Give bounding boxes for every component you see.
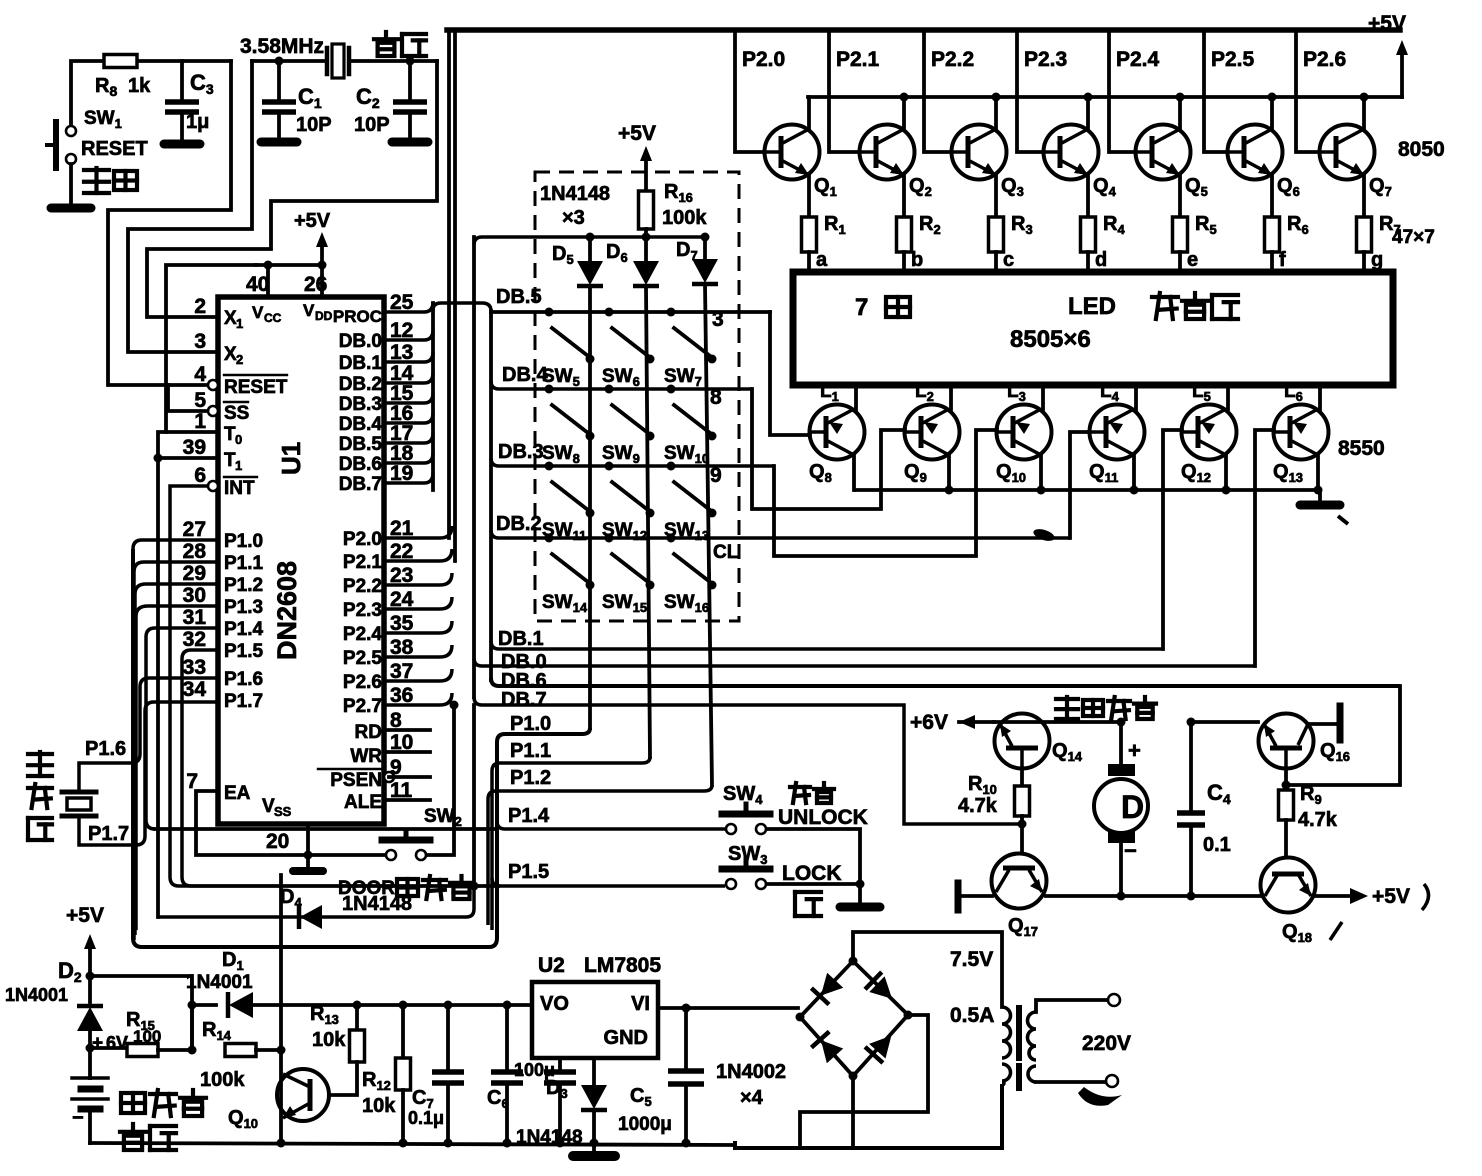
wire R7 to display	[1362, 252, 1366, 272]
svg-text:P1.2: P1.2	[224, 575, 263, 596]
svg-text:INT: INT	[224, 478, 255, 499]
svg-text:6V: 6V	[106, 1033, 128, 1053]
svg-text:1000μ: 1000μ	[618, 1114, 672, 1135]
svg-text:DB.2: DB.2	[496, 513, 542, 535]
svg-text:P1.5: P1.5	[508, 861, 549, 883]
wire Q16 emitter node	[1284, 768, 1288, 785]
transformer core	[1016, 1008, 1022, 1058]
transistor Q19 charge	[277, 1069, 329, 1121]
wire SW4 to ground line	[767, 829, 860, 884]
wire P1 bus return bottom	[133, 549, 497, 947]
svg-text:100k: 100k	[200, 1069, 245, 1091]
wire D4 line	[158, 888, 474, 917]
svg-text:LM7805: LM7805	[584, 954, 661, 977]
wire Q6 collector to R6	[1270, 175, 1274, 217]
svg-text:×4: ×4	[740, 1087, 764, 1109]
svg-text:PSEN: PSEN	[330, 770, 382, 791]
svg-text:f: f	[1279, 249, 1286, 271]
switch SW1	[66, 126, 76, 136]
resistor R13	[355, 1005, 359, 1030]
wire R1 to display	[807, 252, 811, 272]
battery 6V	[88, 1048, 92, 1078]
svg-text:P1.4: P1.4	[224, 619, 264, 640]
motor D	[1117, 718, 1126, 727]
wire Q17 left	[961, 894, 992, 898]
svg-text:P2.6: P2.6	[1303, 48, 1346, 71]
svg-text:1N4148: 1N4148	[516, 1127, 583, 1148]
wire P2.4 drop	[1109, 30, 1135, 152]
wire Q1 emitter to rail	[807, 97, 811, 129]
wire pin 19 to DB bus	[384, 473, 433, 483]
svg-text:1: 1	[235, 458, 242, 473]
svg-text:P2.1: P2.1	[343, 552, 383, 573]
wire DB.7 line	[474, 697, 1021, 824]
ink blob CL elbow	[1032, 527, 1056, 543]
diode D5	[588, 237, 592, 262]
svg-text:0: 0	[235, 432, 242, 447]
svg-text:8505×6: 8505×6	[1010, 326, 1091, 353]
svg-text:3: 3	[712, 308, 724, 331]
svg-text:P2.3: P2.3	[1024, 48, 1067, 71]
svg-text:40: 40	[246, 273, 269, 296]
ground C3	[164, 140, 200, 149]
svg-text:P1.6: P1.6	[85, 738, 126, 760]
svg-text:+5V: +5V	[66, 904, 104, 927]
diode D7	[703, 237, 707, 260]
svg-text:P1.0: P1.0	[510, 713, 551, 735]
wire P2.5 to bus	[384, 645, 452, 657]
svg-text:4.7k: 4.7k	[958, 795, 998, 817]
ground C2	[392, 138, 428, 147]
wire D1 to VO line	[254, 1003, 532, 1007]
svg-text:e: e	[1187, 249, 1198, 271]
label jiesuo (unlock chinese)	[790, 783, 834, 803]
bridge rectifier 1N4002x4	[800, 961, 908, 1076]
wire diode top rail	[644, 229, 648, 237]
wire Q11 collector to rail	[1132, 455, 1136, 490]
wire +6V rail	[959, 720, 994, 724]
svg-text:PROC: PROC	[333, 307, 382, 326]
svg-text:U2: U2	[538, 954, 565, 977]
wire bottom rail	[90, 1143, 735, 1145]
wire Q12 collector to rail	[1224, 455, 1228, 490]
wire D2 to battery node	[88, 1032, 92, 1048]
wire R15 to junction	[158, 1048, 192, 1052]
wire keypad column 2	[646, 287, 650, 757]
svg-text:4: 4	[194, 363, 206, 386]
pin 9 stub	[384, 772, 394, 782]
buzzer piezo	[62, 790, 96, 795]
wire P1.3 pin to bundle	[136, 606, 218, 930]
svg-text:LOCK: LOCK	[782, 862, 842, 885]
wire P1.2 line	[488, 785, 712, 925]
svg-text:DN2608: DN2608	[272, 561, 302, 660]
svg-text:P1.7: P1.7	[88, 823, 129, 845]
resistor R5	[1173, 217, 1188, 252]
svg-text:7: 7	[855, 294, 868, 321]
wire SW1 to ground	[69, 164, 73, 205]
terminal bar Q16 right	[1308, 722, 1336, 726]
svg-text:39: 39	[183, 436, 206, 459]
diode D6	[644, 237, 648, 262]
wire P2.1 drop	[829, 30, 859, 152]
wire pin 17 to DB bus	[384, 433, 433, 443]
svg-text:VI: VI	[631, 993, 650, 1015]
dashed keypad box	[535, 172, 739, 621]
svg-text:DB.6: DB.6	[339, 454, 382, 475]
wire DB.0 line	[474, 658, 1255, 666]
wire L1 stub	[854, 385, 858, 409]
capacitor C6	[503, 1001, 512, 1010]
ground VSS	[304, 851, 313, 860]
svg-text:DD: DD	[315, 309, 333, 323]
bus P2 vertical pair	[447, 30, 451, 538]
wire P2.1 to bus	[384, 549, 452, 561]
wire P2.4 to bus	[384, 621, 452, 633]
pin 6 stub	[208, 481, 218, 491]
wire P1.1 pin to bundle	[134, 562, 218, 940]
capacitor C4	[1187, 718, 1196, 727]
transistor Q3	[952, 125, 1007, 180]
svg-text:b: b	[911, 249, 923, 271]
svg-text:DB.7: DB.7	[339, 474, 382, 495]
svg-text:WR: WR	[350, 746, 382, 767]
svg-text:1k: 1k	[128, 75, 151, 97]
svg-text:100k: 100k	[662, 207, 707, 229]
svg-text:10P: 10P	[354, 114, 390, 136]
bus DB vertical A	[431, 303, 435, 490]
wire P1.0 pin to bundle	[133, 540, 218, 549]
wire R13 top	[353, 1001, 362, 1010]
label yadianpian (piezo chinese vertical)	[28, 752, 52, 776]
svg-text:P2.5: P2.5	[343, 648, 383, 669]
wire P2.7 to bus	[384, 693, 452, 705]
wire Q6 emitter to rail	[1270, 97, 1274, 129]
wire P2.6 to bus	[384, 669, 452, 681]
capacitor C7	[444, 1001, 453, 1010]
svg-text:P1.4: P1.4	[508, 805, 550, 827]
svg-text:DB.3: DB.3	[339, 394, 382, 415]
transistor Q17	[992, 854, 1047, 909]
svg-text:×3: ×3	[562, 207, 585, 229]
wire rail end to 7.5V box	[682, 1139, 691, 1148]
svg-text:EA: EA	[224, 783, 251, 804]
capacitor C1	[275, 57, 284, 66]
capacitor C3	[180, 61, 184, 99]
wire crystal left node	[252, 59, 327, 63]
svg-text:+5V: +5V	[294, 210, 331, 232]
wire Q8 collector to rail	[852, 455, 856, 490]
switch SW16	[667, 534, 676, 543]
svg-text:P1.1: P1.1	[510, 740, 551, 762]
wire L4 stub	[1134, 385, 1138, 409]
wire P2.3 drop	[1017, 30, 1043, 152]
svg-text:31: 31	[183, 606, 207, 629]
wire pin 14 to DB bus	[384, 373, 433, 383]
svg-text:1μ: 1μ	[186, 111, 209, 133]
svg-text:10k: 10k	[312, 1029, 346, 1051]
svg-text:P1.5: P1.5	[224, 641, 264, 662]
ic U1 DN2608 body	[218, 297, 384, 824]
pin 5 stub	[208, 406, 218, 416]
pin 4 stub	[208, 380, 218, 390]
wire RESET net staircase	[108, 61, 231, 385]
wire R3 to display	[994, 252, 998, 272]
svg-text:P2.0: P2.0	[742, 48, 785, 71]
switch SW6	[605, 308, 614, 317]
bus DB vertical C	[489, 311, 493, 680]
svg-text:30: 30	[183, 584, 206, 607]
wire Q1 collector to R1	[807, 175, 811, 217]
wire R10 bottom node	[1020, 816, 1024, 853]
svg-text:7: 7	[186, 770, 198, 793]
svg-text:P2.1: P2.1	[836, 48, 880, 71]
svg-text:20: 20	[266, 830, 289, 853]
wire R2 to display	[902, 252, 906, 272]
wire Q13 collector to rail	[1316, 455, 1320, 490]
svg-text:D: D	[1121, 789, 1144, 825]
wire Q4 collector to R4	[1086, 175, 1090, 217]
label jingti (crystal chinese)	[374, 32, 426, 56]
transistor Q18	[1261, 858, 1316, 913]
svg-text:5: 5	[194, 389, 206, 412]
svg-text:P1.6: P1.6	[224, 669, 263, 690]
svg-text:DB.5: DB.5	[339, 434, 383, 455]
svg-text:DB.1: DB.1	[498, 628, 544, 650]
wire Q10 collector to rail	[1039, 455, 1043, 490]
label fuwei (reset chinese)	[84, 168, 137, 193]
wire bridge right AC2 loop	[800, 1015, 928, 1148]
svg-text:3: 3	[194, 330, 206, 353]
svg-text:29: 29	[183, 562, 206, 585]
wire keypad column 1	[588, 287, 592, 728]
resistor R2	[897, 217, 912, 252]
svg-text:−: −	[72, 1107, 84, 1129]
wire R6 to display	[1270, 252, 1274, 272]
pin VDD 26	[320, 264, 324, 297]
wire P2.2 to bus	[384, 573, 452, 585]
wire EA to ground	[196, 791, 308, 855]
resistor R16	[639, 191, 654, 229]
wire Q4 emitter to rail	[1086, 97, 1090, 129]
wire P2.7 vertical to D4 node	[472, 705, 476, 886]
wire P1.6 to buzzer	[79, 678, 218, 790]
transistor Q8	[810, 405, 865, 460]
switch SW3	[726, 879, 736, 889]
svg-text:ALE: ALE	[344, 792, 382, 813]
resistor R3	[989, 217, 1004, 252]
svg-text:7.5V: 7.5V	[950, 948, 993, 971]
wire +5V to R15 top right	[90, 976, 192, 1048]
svg-text:c: c	[1003, 249, 1014, 271]
power +5V arrow mcu	[320, 244, 324, 265]
svg-text:32: 32	[183, 628, 206, 651]
svg-text:P2.4: P2.4	[1116, 48, 1160, 71]
svg-text:DB.5: DB.5	[496, 286, 542, 308]
wire keypad column 3	[705, 285, 712, 785]
wire P1.7 to buzzer	[79, 702, 218, 845]
switch SW15	[605, 534, 614, 543]
wire P2.5 drop	[1204, 30, 1227, 152]
svg-text:P1.1: P1.1	[224, 553, 264, 574]
svg-text:0.1: 0.1	[1203, 834, 1231, 856]
wire Q14 emitter top	[994, 720, 1121, 724]
svg-text:26: 26	[304, 273, 327, 296]
resistor R1	[802, 217, 817, 252]
wire vcc vdd +5V	[256, 263, 322, 267]
wire motor box right edge	[1289, 686, 1400, 785]
wire SW3 to ground	[767, 882, 860, 886]
ground SW3 SW4	[840, 903, 880, 912]
bridge diode bottom-right	[865, 1028, 900, 1063]
svg-text:SS: SS	[224, 403, 249, 424]
resistor R7	[1357, 217, 1372, 252]
wire VSS to SW2	[308, 853, 385, 857]
svg-text:V: V	[252, 303, 264, 322]
transistor Q4	[1044, 125, 1099, 180]
wire P1.2 pin to bundle	[135, 584, 218, 935]
bus top rail P2	[447, 27, 1400, 33]
wire Q9 collector to rail	[947, 455, 951, 490]
svg-text:P2.2: P2.2	[931, 48, 974, 71]
transistor Q6	[1228, 125, 1283, 180]
svg-text:DB.3: DB.3	[498, 441, 544, 463]
capacitor C2	[406, 57, 415, 66]
diode D3	[592, 1058, 596, 1086]
svg-text:P2.2: P2.2	[343, 576, 382, 597]
svg-text:+5V: +5V	[618, 122, 656, 145]
capacitor C5	[684, 1008, 688, 1068]
wire P1.5 line	[492, 878, 725, 886]
wire Q3 emitter to rail	[994, 97, 998, 129]
svg-text:8050: 8050	[1398, 138, 1445, 161]
wire P2.0 to bus	[384, 526, 452, 538]
wire Q2 collector to R2	[902, 175, 906, 217]
wire SS branch	[168, 385, 208, 411]
wire INT vertical	[170, 486, 500, 886]
wire Q14 to R10	[1020, 768, 1024, 786]
wire T0 T1 junction	[158, 432, 218, 917]
ground collector rail	[1318, 490, 1322, 500]
wire R9 to Q18	[1284, 820, 1288, 857]
svg-text:P2.3: P2.3	[343, 600, 382, 621]
wire P2.6 drop	[1296, 30, 1319, 152]
svg-text:DB.1: DB.1	[339, 353, 383, 374]
label niege dianchizu (battery chinese)	[121, 1090, 206, 1116]
svg-text:P1.3: P1.3	[224, 597, 263, 618]
svg-text:1N4148: 1N4148	[540, 183, 610, 205]
crystal Y1	[325, 48, 330, 74]
svg-text:9: 9	[710, 464, 722, 487]
wire P1.1 line	[492, 757, 650, 930]
label zhiliu dianji (dc motor chinese)	[1056, 697, 1156, 719]
bridge diode bottom-left	[811, 1032, 844, 1064]
wire P1.4 pin down	[146, 628, 218, 829]
svg-text:P2.7: P2.7	[343, 696, 382, 717]
wire Q18 to +5V arrow	[1315, 894, 1352, 898]
svg-text:1N4001: 1N4001	[5, 985, 68, 1005]
wire DB.0 to Q13 base	[1255, 430, 1274, 666]
wire R4 to display	[1086, 252, 1090, 272]
svg-text:1N4002: 1N4002	[716, 1061, 786, 1083]
wire transformer bottom line	[735, 1086, 1002, 1148]
resistor R4	[1081, 217, 1096, 252]
wire row DB.5	[491, 310, 770, 314]
wire pin 12 to DB bus	[384, 330, 433, 340]
resistor R6	[1265, 217, 1280, 252]
transistor Q7	[1320, 125, 1375, 180]
transformer T1 secondary coil	[1002, 1007, 1011, 1058]
svg-text:1N4001: 1N4001	[186, 972, 253, 993]
svg-text:+5V: +5V	[1372, 885, 1410, 908]
bus DB vertical B	[472, 237, 476, 697]
svg-text:+: +	[92, 1033, 103, 1054]
ic U2 LM7805 box	[532, 982, 658, 1058]
wire motor bottom rail	[1046, 894, 1261, 898]
wire Q16 base	[1191, 720, 1258, 724]
wire D2 node top	[86, 972, 95, 981]
wire Q7 emitter to rail	[1362, 97, 1366, 129]
wire pin 16 to DB bus	[384, 413, 433, 423]
transistor Q2	[860, 125, 915, 180]
wire L6 stub	[1318, 385, 1322, 409]
svg-text:100: 100	[133, 1027, 161, 1046]
wire crystal right node	[352, 59, 437, 63]
bridge diode top-left	[811, 972, 844, 1004]
wire VI to bridge	[658, 1006, 798, 1010]
wire R13 to Q19 base	[331, 1062, 357, 1095]
wire L3 stub	[1041, 385, 1045, 409]
svg-text:DB.2: DB.2	[339, 374, 382, 395]
wire pin 25 to DB bus	[384, 302, 433, 312]
transistor Q5	[1136, 125, 1191, 180]
wire reset top	[71, 61, 231, 131]
svg-text:3.58MHz: 3.58MHz	[240, 35, 324, 58]
transistor Q12	[1182, 405, 1237, 460]
svg-text:+5V: +5V	[1368, 12, 1406, 35]
svg-text:2: 2	[236, 352, 243, 367]
wire X2 staircase from crystal left	[128, 61, 252, 352]
wire row DB.2	[491, 530, 1070, 538]
switch SW5	[545, 308, 554, 317]
switch SW7	[667, 308, 676, 317]
wire primary top terminal	[1036, 1000, 1106, 1012]
svg-text:P1.2: P1.2	[510, 767, 551, 789]
wire bridge bottom to rail	[851, 1076, 855, 1148]
svg-text:DB.4: DB.4	[339, 414, 383, 435]
svg-text:RESET: RESET	[224, 377, 288, 398]
svg-text:10k: 10k	[362, 1095, 396, 1117]
svg-text:RD: RD	[355, 722, 382, 743]
wire DB.1 to Q12 base	[1163, 430, 1182, 649]
wire VSS ground vertical	[279, 875, 283, 1143]
transistor Q9	[905, 405, 960, 460]
bridge diode top-right	[865, 972, 900, 1007]
svg-text:−: −	[1124, 838, 1137, 863]
switch SW10	[667, 385, 676, 394]
svg-text:P2.4: P2.4	[343, 624, 383, 645]
wire emitter rail Q1-Q7	[808, 95, 1402, 99]
svg-text:UNLOCK: UNLOCK	[778, 806, 868, 829]
svg-text:g: g	[1371, 249, 1383, 271]
resistor R14	[225, 1044, 256, 1057]
wire pin 18 to DB bus	[384, 453, 433, 463]
resistor R12	[399, 1001, 408, 1010]
transistor Q14	[995, 714, 1050, 769]
svg-text:+6V: +6V	[910, 711, 948, 734]
transistor Q11	[1090, 405, 1145, 460]
switch SW12	[605, 462, 614, 471]
